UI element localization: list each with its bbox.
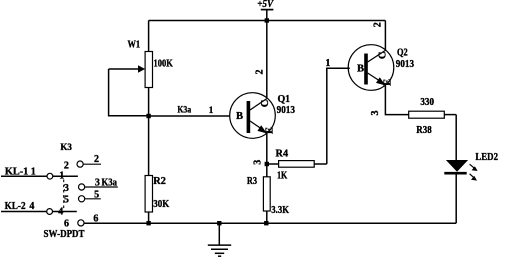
svg-text:3: 3	[95, 177, 100, 188]
node +5V rail junction	[265, 18, 269, 22]
svg-text:R3: R3	[247, 176, 257, 187]
transistor Q2 9013	[348, 22, 414, 115]
svg-text:E: E	[383, 79, 394, 86]
svg-text:5: 5	[94, 189, 99, 200]
svg-text:5: 5	[64, 195, 69, 206]
LED LED2	[444, 152, 498, 180]
svg-text:+5V: +5V	[257, 0, 274, 10]
svg-text:9013: 9013	[277, 105, 295, 116]
resistor R3	[247, 176, 289, 216]
svg-text:3: 3	[64, 183, 69, 194]
wire R4 to Q2 base	[327, 68, 350, 164]
svg-text:3: 3	[370, 111, 381, 116]
wire W1 bottom to node	[148, 88, 150, 117]
svg-text:R38: R38	[416, 125, 431, 136]
wire rail to W1 top	[148, 21, 150, 52]
switch K3 SW-DPDT	[1, 142, 118, 240]
node ground junction	[217, 221, 221, 225]
ground	[208, 223, 231, 256]
svg-text:330: 330	[420, 97, 434, 108]
svg-text:B: B	[357, 63, 364, 74]
resistor R38	[409, 97, 457, 136]
svg-text:6: 6	[64, 218, 69, 229]
svg-text:K3: K3	[60, 142, 72, 152]
wire wiper return	[109, 69, 149, 116]
node emitter R4 junction	[265, 162, 269, 166]
svg-text:2: 2	[255, 70, 266, 75]
wire R38 to LED2	[455, 115, 457, 160]
node R2 ground junction	[146, 221, 150, 225]
transistor Q1 9013	[230, 70, 295, 165]
svg-text:1: 1	[31, 166, 36, 177]
svg-text:R2: R2	[153, 176, 166, 187]
svg-text:K3a: K3a	[177, 105, 191, 115]
svg-text:1: 1	[325, 58, 330, 69]
svg-text:2: 2	[94, 154, 99, 165]
wire R3 to ground rail	[266, 211, 268, 223]
svg-text:LED2: LED2	[475, 152, 498, 163]
svg-text:3.3K: 3.3K	[271, 205, 289, 216]
wire LED2 to ground rail	[455, 175, 457, 224]
resistor R2	[145, 176, 169, 213]
svg-text:30K: 30K	[153, 199, 169, 210]
potentiometer W1	[109, 39, 173, 87]
svg-text:K3a: K3a	[102, 177, 118, 188]
svg-text:C: C	[378, 52, 389, 60]
svg-text:2: 2	[373, 22, 384, 27]
svg-text:2: 2	[64, 161, 69, 172]
resistor R4	[267, 149, 327, 182]
node R3 ground junction	[264, 221, 268, 225]
pin 4 pole	[47, 209, 53, 215]
svg-text:KL-2: KL-2	[5, 201, 26, 212]
svg-text:3: 3	[253, 160, 264, 165]
wire node to R2	[148, 116, 150, 176]
svg-text:Q2: Q2	[397, 48, 408, 59]
power +5V	[257, 0, 274, 20]
svg-text:KL-1: KL-1	[5, 166, 28, 177]
svg-text:W1: W1	[128, 39, 141, 50]
svg-text:9013: 9013	[396, 59, 414, 70]
wire KL-1	[1, 175, 47, 177]
svg-text:R4: R4	[276, 149, 289, 160]
wire top rail	[149, 20, 386, 22]
wire Q2 emitter to R38	[385, 85, 408, 114]
svg-text:4: 4	[29, 201, 34, 212]
svg-text:C: C	[260, 100, 271, 108]
wire Q1 collector	[266, 21, 268, 99]
svg-text:100K: 100K	[154, 58, 173, 69]
wire Q1 base net K3a	[149, 115, 230, 117]
wire Q1 emitter	[266, 133, 268, 164]
svg-text:Q1: Q1	[278, 94, 291, 105]
svg-text:B: B	[236, 111, 243, 122]
wire R4 node to R3	[266, 164, 268, 177]
mechanical link	[63, 180, 65, 209]
svg-text:1K: 1K	[277, 170, 287, 181]
wire ground rail	[84, 222, 456, 224]
wire KL-2	[1, 211, 47, 213]
svg-text:6: 6	[93, 213, 98, 224]
svg-text:1: 1	[209, 105, 214, 115]
node base junction	[146, 114, 150, 118]
svg-text:SW-DPDT: SW-DPDT	[44, 229, 85, 240]
wire Q2 collector	[384, 21, 386, 51]
pin 1 pole	[47, 173, 53, 179]
wire R2 to ground rail	[148, 212, 150, 223]
svg-text:4: 4	[58, 206, 63, 217]
svg-text:E: E	[264, 127, 275, 134]
